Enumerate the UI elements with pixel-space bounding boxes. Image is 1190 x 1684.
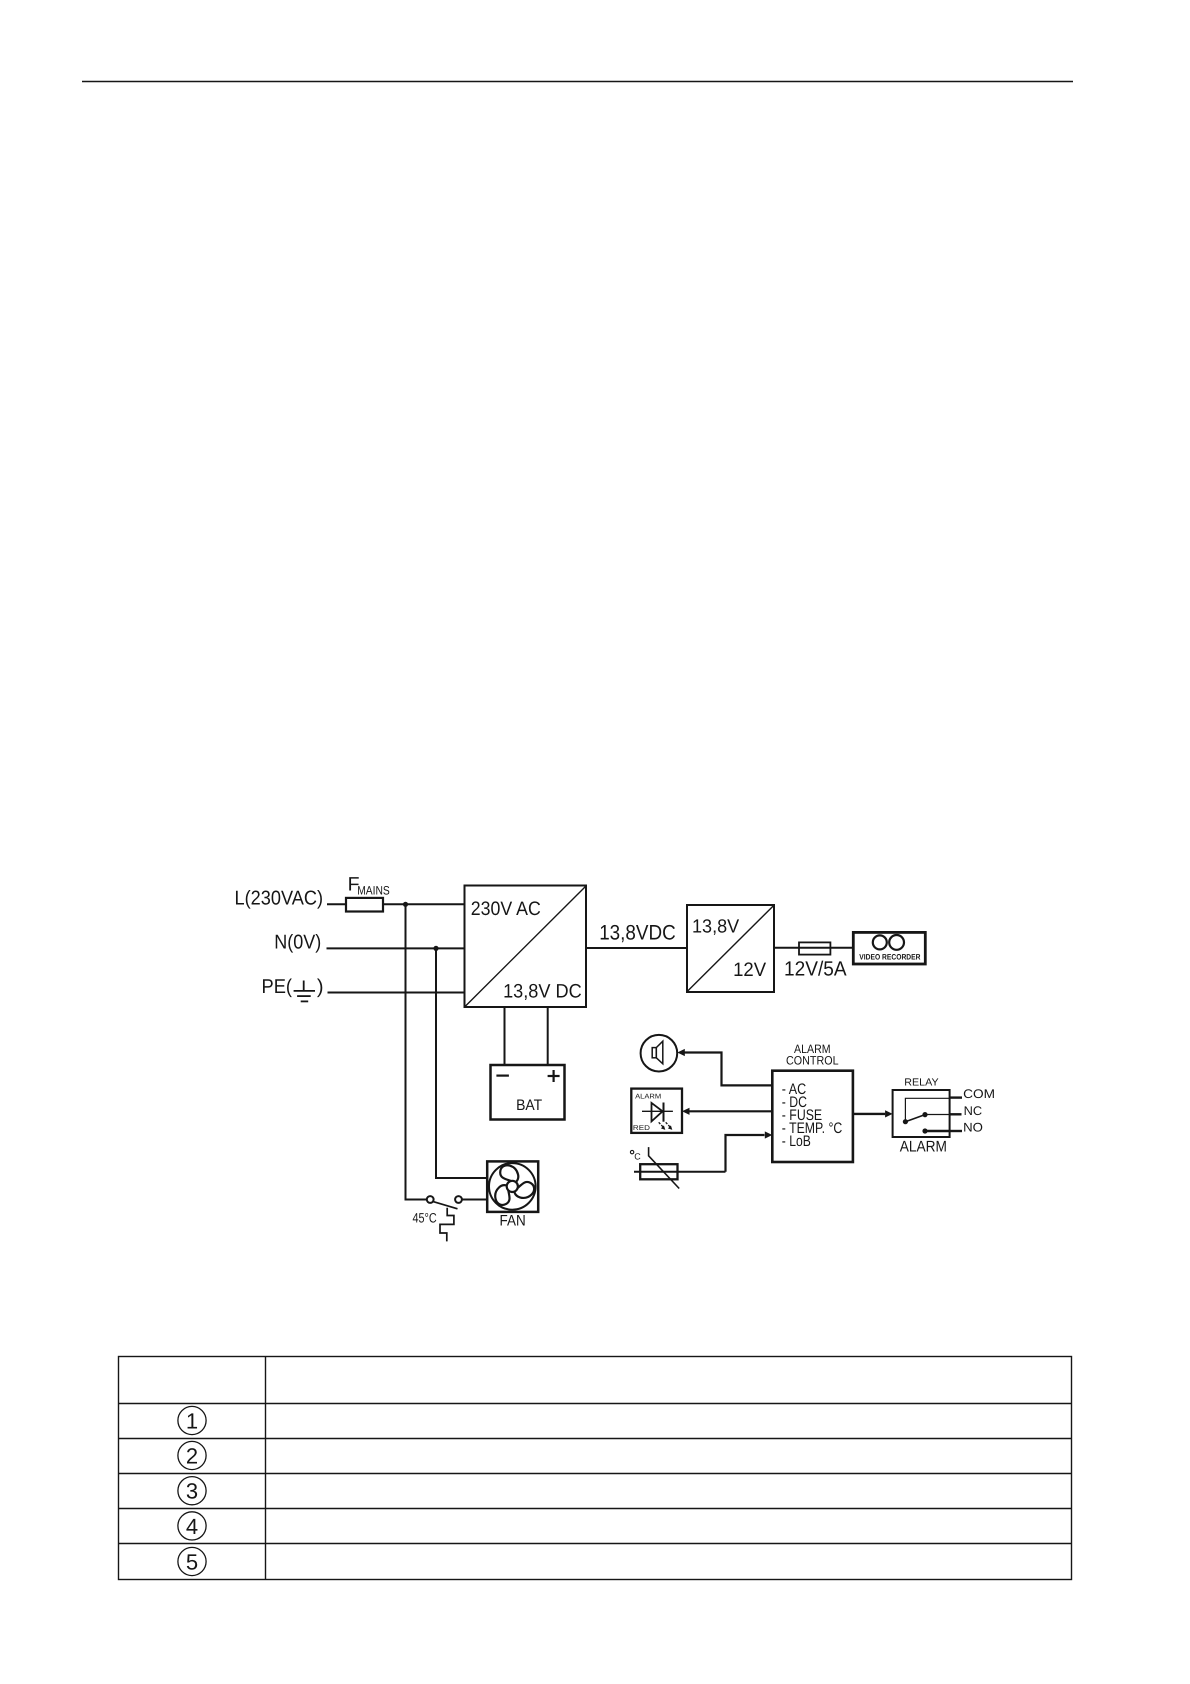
video recorder box	[853, 932, 925, 964]
table outer border	[119, 1357, 1072, 1580]
svg-text:BAT: BAT	[516, 1097, 542, 1114]
fan circle	[489, 1163, 536, 1210]
thermistor sensor	[640, 1164, 677, 1179]
circled number 5	[178, 1547, 206, 1575]
label RELAY	[904, 1078, 938, 1089]
svg-text:CONTROL: CONTROL	[786, 1053, 839, 1067]
arrow control to LED	[682, 1108, 690, 1115]
svg-text:ALARM: ALARM	[900, 1138, 947, 1155]
reel circles of video recorder	[873, 935, 887, 949]
header rule	[82, 81, 1073, 83]
thermal switch contacts	[427, 1196, 434, 1203]
label 12V/5A	[784, 957, 847, 980]
svg-text:12V/5A: 12V/5A	[784, 957, 847, 980]
svg-text:ALARM: ALARM	[635, 1093, 661, 1100]
battery plus sign	[548, 1075, 560, 1077]
table row lines	[119, 1403, 1072, 1405]
ground symbol in PE label	[294, 981, 315, 1002]
svg-text:1: 1	[186, 1408, 198, 1433]
svg-text:VIDEO RECORDER: VIDEO RECORDER	[859, 952, 921, 961]
svg-text:- LoB: - LoB	[782, 1133, 811, 1150]
wire L to fuse	[327, 903, 346, 905]
battery box	[491, 1065, 565, 1120]
arrow to speaker	[677, 1049, 685, 1056]
output fuse 12V/5A	[799, 942, 830, 954]
svg-text:C: C	[634, 1152, 641, 1162]
LED indicator box	[631, 1089, 682, 1133]
circled number 4	[178, 1512, 206, 1540]
svg-text:): )	[317, 976, 324, 998]
wire from N junction down to fan	[436, 948, 487, 1178]
relay box	[893, 1090, 950, 1137]
fan blades	[491, 1165, 537, 1207]
diagonal of converter box	[465, 886, 585, 1006]
wire N to converter	[327, 947, 465, 949]
relay NO contact dot	[922, 1128, 927, 1133]
label BAT	[516, 1097, 542, 1114]
circled number 1	[178, 1406, 206, 1434]
battery minus sign	[496, 1074, 509, 1076]
node PE label	[262, 976, 324, 998]
svg-text:3: 3	[186, 1479, 198, 1504]
DC converter box 13,8V/12V	[687, 905, 774, 992]
wire from L junction down to thermal switch	[406, 904, 427, 1199]
labels COM NC NO	[963, 1087, 995, 1135]
svg-text:COM: COM	[963, 1087, 995, 1101]
node L(230VAC) label	[235, 887, 324, 909]
LED diode symbol	[642, 1110, 673, 1112]
switch arm	[434, 1202, 458, 1209]
wire converter to DC converter	[586, 947, 687, 949]
thermal actuator zigzag	[440, 1208, 454, 1242]
table column separator	[265, 1357, 267, 1580]
TABLE	[119, 1357, 1072, 1580]
svg-text:NC: NC	[964, 1104, 983, 1118]
converter box 230VAC/13.8VDC	[465, 886, 587, 1008]
label FMAINS	[348, 874, 390, 898]
svg-text:13,8V: 13,8V	[692, 916, 740, 937]
label ALARM under relay	[900, 1138, 947, 1155]
label VIDEO RECORDER	[859, 952, 921, 961]
alarm control list	[782, 1081, 843, 1150]
wire PE to converter	[328, 992, 465, 994]
svg-text:FAN: FAN	[500, 1212, 526, 1229]
fan hub	[507, 1181, 518, 1192]
svg-text:13,8V DC: 13,8V DC	[503, 980, 582, 1002]
svg-text:NO: NO	[963, 1120, 983, 1134]
relay arm	[905, 1115, 925, 1122]
label ALARM CONTROL	[786, 1042, 839, 1067]
relay internal wiring	[905, 1098, 949, 1121]
svg-text:230V AC: 230V AC	[471, 898, 541, 920]
label FAN	[500, 1212, 526, 1229]
SCHEMATIC	[235, 874, 926, 1242]
wire switch to fan	[462, 1199, 487, 1201]
svg-text:13,8VDC: 13,8VDC	[599, 921, 676, 944]
speaker circle	[641, 1035, 678, 1072]
svg-text:PE(: PE(	[262, 976, 293, 998]
arrow control to relay	[853, 1113, 885, 1115]
relay terminal stubs	[950, 1096, 962, 1098]
label degC	[630, 1150, 633, 1153]
svg-text:2: 2	[186, 1443, 198, 1468]
svg-text:45°C: 45°C	[413, 1210, 437, 1225]
junction dot on N wire	[433, 946, 438, 951]
svg-text:L(230VAC): L(230VAC)	[235, 887, 324, 909]
svg-text:N(0V): N(0V)	[274, 931, 321, 953]
wire fuse to converter	[383, 903, 465, 905]
LED emission arrows	[659, 1122, 664, 1127]
junction dot on L wire	[403, 902, 408, 907]
alarm control box	[772, 1071, 853, 1162]
wires converter to battery	[504, 1007, 506, 1065]
wire thermistor to control with arrow	[726, 1135, 765, 1172]
ALARM SECTION	[630, 1035, 995, 1189]
svg-text:4: 4	[186, 1514, 198, 1539]
svg-text:MAINS: MAINS	[357, 884, 390, 898]
fan box	[487, 1161, 538, 1212]
svg-text:12V: 12V	[733, 959, 766, 981]
svg-text:5: 5	[186, 1549, 198, 1574]
label 13,8VDC	[599, 921, 676, 944]
svg-text:RELAY: RELAY	[904, 1078, 938, 1089]
diagonal of DC converter box	[688, 906, 773, 991]
speaker icon	[652, 1048, 656, 1058]
wire DC converter to output fuse	[774, 947, 853, 949]
circled number 2	[178, 1441, 206, 1469]
node N(0V) label	[274, 931, 321, 953]
fuse FMAINS	[346, 898, 383, 912]
svg-text:RED: RED	[633, 1125, 650, 1132]
label 45degC	[413, 1210, 437, 1225]
circled number 3	[178, 1477, 206, 1505]
